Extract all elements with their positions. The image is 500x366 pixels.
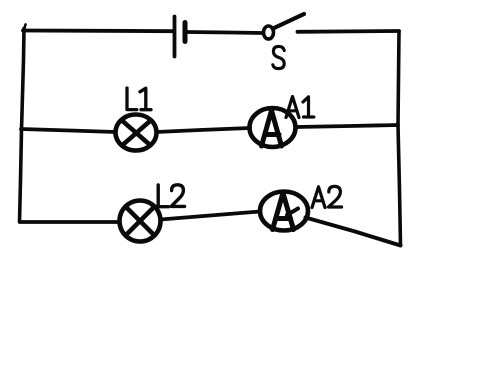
battery cell: short thick plate (right): [183, 23, 188, 42]
wire: top horizontal, left corner to battery: [23, 29, 172, 34]
wire: top-left corner overshoot tick: [24, 25, 26, 30]
label S: [273, 46, 284, 68]
switch S: pivot circle: [264, 26, 274, 39]
wire: lamp L1 to ammeter A1: [157, 128, 251, 132]
wire: bottom branch, left junction to lamp L2: [20, 220, 119, 224]
wire: ammeter A2 diagonal to right vertical bottom: [306, 218, 401, 246]
wire: left vertical (top corner to bottom branch junction): [20, 29, 25, 223]
battery cell: long plate (left): [173, 17, 177, 57]
label L2: [158, 185, 184, 207]
label A1: [286, 97, 314, 118]
wire: ammeter A1 to right vertical: [296, 125, 398, 127]
ammeter A2: needle tick: [287, 209, 298, 216]
lamp L1: cross stroke 1: [122, 121, 150, 146]
wire: right vertical: [398, 31, 401, 246]
label L1: [127, 88, 151, 110]
lamp L2: cross stroke 1: [126, 207, 155, 236]
lamp L1: cross stroke 2: [122, 121, 150, 146]
wire: lamp L2 to ammeter A2: [161, 212, 261, 220]
ammeter A1: letter A: [262, 111, 282, 147]
label A2: [312, 186, 342, 207]
wire: switch to top-right corner: [298, 29, 400, 34]
ammeter A2: letter A: [273, 193, 294, 230]
wire: middle branch, left junction to lamp L1: [21, 129, 116, 132]
ammeter A2: circle: [260, 192, 308, 231]
lamp L1: circle: [116, 115, 157, 151]
lamp L2: circle: [120, 201, 161, 242]
ammeter A1: circle: [250, 108, 296, 147]
switch S: open lever arm: [273, 14, 304, 29]
wire: battery to switch pivot: [187, 32, 262, 33]
lamp L2: cross stroke 2: [126, 207, 155, 236]
